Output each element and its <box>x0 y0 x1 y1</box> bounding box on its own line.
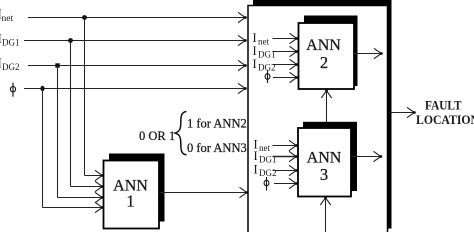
label ANN2 text <box>306 37 341 72</box>
wire: I-net horizontal line <box>28 17 246 19</box>
junction dot on phi line <box>40 86 44 91</box>
svg-text:3: 3 <box>320 165 328 184</box>
label ANN3 text <box>307 150 342 185</box>
wire: ANN1 output to big box <box>160 192 248 194</box>
label I-DG1 for ANN2 <box>253 44 276 60</box>
svg-text:ANN: ANN <box>307 150 342 167</box>
label phi for ANN2 <box>265 70 270 83</box>
wire: I-DG1 arrow into ANN3 <box>273 156 297 158</box>
svg-text:LOCATION: LOCATION <box>416 112 474 127</box>
wire: I-DG2 arrow into ANN2 <box>273 64 298 66</box>
svg-text:DG1: DG1 <box>2 38 20 48</box>
label phi for ANN3 <box>264 177 269 191</box>
wire: ANN2 output arrow <box>355 53 382 55</box>
label I-DG2 for ANN2 <box>253 57 276 73</box>
svg-text:ANN: ANN <box>306 37 341 54</box>
wire: I-DG1 arrow into ANN2 <box>273 51 298 53</box>
label I-DG1 for ANN3 <box>254 149 277 165</box>
svg-text:I: I <box>254 163 258 177</box>
block ANN1 <box>104 161 160 229</box>
svg-text:2: 2 <box>320 53 328 72</box>
svg-text:1 for ANN2: 1 for ANN2 <box>187 117 247 131</box>
big system box shadow <box>253 0 392 229</box>
block ANN1 shadow <box>109 154 165 222</box>
wire: I-DG2 vertical drop <box>57 66 59 198</box>
label I-DG2 for ANN3 <box>254 163 277 179</box>
junction dot on I-net <box>82 15 87 20</box>
node: input line I-net label <box>0 7 13 25</box>
label annotation brace <box>175 112 186 155</box>
wire: I-DG2 feed into ANN1 pin3 <box>58 197 103 199</box>
svg-text:I: I <box>254 149 258 163</box>
wire: I-DG1 vertical drop <box>70 41 72 187</box>
node: input phi symbol <box>10 83 15 97</box>
svg-text:FAULT: FAULT <box>425 98 462 113</box>
node: input line I-DG2 label <box>0 56 20 73</box>
svg-text:net: net <box>2 14 14 24</box>
block ANN3 <box>298 128 351 197</box>
svg-text:I: I <box>253 31 257 45</box>
wire: phi feed into ANN1 pin4 <box>43 207 103 209</box>
svg-text:net: net <box>259 143 270 153</box>
label I-net for ANN3 <box>254 138 271 154</box>
wire: I-net arrow into ANN2 <box>273 38 298 40</box>
svg-text:DG2: DG2 <box>259 168 277 178</box>
wire: selector arrow into ANN3 bottom <box>325 198 327 233</box>
wire: phi arrow into ANN2 <box>273 77 297 79</box>
junction dot on I-DG2 <box>55 63 59 67</box>
wire: I-DG1 horizontal line <box>24 40 246 42</box>
node: input line I-DG1 label <box>0 31 20 48</box>
wire: I-DG2 arrow into ANN3 <box>273 170 297 172</box>
svg-text:0 OR 1: 0 OR 1 <box>139 129 175 143</box>
wire: phi horizontal line <box>24 88 246 90</box>
wire: fault location output arrow <box>392 112 415 114</box>
wire: I-net vertical drop <box>84 18 86 176</box>
wire: ANN3 output arrow <box>351 156 381 158</box>
big system box <box>248 6 388 240</box>
wire: I-DG2 horizontal line <box>28 65 246 67</box>
svg-text:1: 1 <box>126 192 134 211</box>
wire: selector arrow into ANN2 bottom <box>326 91 328 125</box>
svg-text:net: net <box>258 37 269 47</box>
wire: phi vertical drop <box>42 89 44 208</box>
block ANN3 shadow <box>303 122 357 191</box>
wire: I-net arrow into ANN3 <box>273 145 297 147</box>
block ANN2 <box>299 23 355 89</box>
wire: I-DG1 feed into ANN1 pin2 <box>71 186 103 188</box>
svg-text:DG2: DG2 <box>2 62 20 72</box>
svg-text:0 for ANN3: 0 for ANN3 <box>187 141 247 155</box>
junction dot on I-DG1 <box>68 38 73 43</box>
label FAULT LOCATION <box>416 98 474 128</box>
svg-text:I: I <box>253 44 257 58</box>
wire: phi arrow into ANN3 <box>274 183 297 185</box>
svg-text:I: I <box>253 57 257 71</box>
label ANN1 text <box>113 178 148 211</box>
label I-net for ANN2 <box>253 31 270 47</box>
wire: I-net feed into ANN1 pin1 <box>85 175 103 177</box>
block ANN2 shadow <box>304 16 358 87</box>
